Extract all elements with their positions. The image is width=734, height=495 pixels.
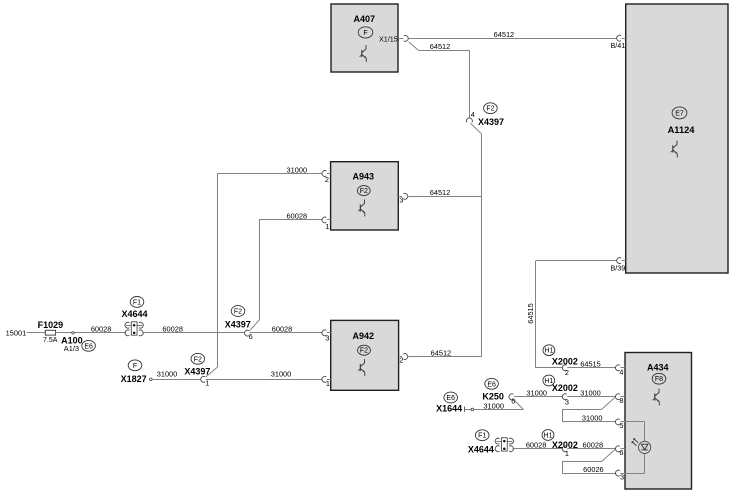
node 15001 label xyxy=(6,328,27,337)
svg-text:X4397: X4397 xyxy=(478,117,504,127)
svg-text:A1124: A1124 xyxy=(668,125,696,135)
A943 pin number 3 xyxy=(399,195,403,204)
svg-text:A942: A942 xyxy=(353,331,375,341)
wire label 60028 after X4397 xyxy=(272,325,293,334)
wire 31000 X4397 to A942 pin1 xyxy=(206,379,322,381)
A1124 pin B/41 stub xyxy=(622,38,626,40)
wire diagonal X1644 to K250 xyxy=(513,399,523,410)
A434 pin 6 socket xyxy=(615,446,619,452)
A942 pin 1 stub xyxy=(327,379,331,381)
A943 pin 3 stub xyxy=(398,196,402,198)
svg-text:E6: E6 xyxy=(487,381,496,388)
A943 pin 2 socket xyxy=(322,171,326,177)
svg-text:E7: E7 xyxy=(675,110,684,117)
A407 label xyxy=(354,14,376,24)
wire 64515 vertical xyxy=(535,261,537,368)
wire 60026 branch to A434 pin3 xyxy=(562,473,615,475)
A1124 code E7 xyxy=(672,107,687,119)
wire label 60028 to A434 pin6 xyxy=(583,441,604,450)
svg-text:31000: 31000 xyxy=(483,401,504,410)
A943 transistor xyxy=(358,200,365,217)
A434 pin number 8 xyxy=(619,396,623,405)
wire 64512 A407 to A1124 xyxy=(408,38,617,40)
svg-text:3: 3 xyxy=(325,333,329,342)
A100 pin A1/3 xyxy=(64,344,79,353)
connector X2002 pin2 label xyxy=(552,357,578,367)
svg-text:X2002: X2002 xyxy=(552,383,578,393)
A407 pin X1/15 socket xyxy=(404,36,408,42)
wire 60026 branch upper horizontal xyxy=(562,461,601,463)
connector X4397 pin6 code F2 xyxy=(231,306,245,317)
wire 64515 to X2002 pin2 xyxy=(536,367,563,369)
svg-text:F: F xyxy=(133,363,137,370)
wire 64512 A943 to vertical xyxy=(408,196,482,198)
svg-text:K250: K250 xyxy=(482,392,504,402)
A942 pin 3 stub xyxy=(327,332,331,334)
wire 60026 branch vertical xyxy=(562,462,564,474)
svg-text:X4397: X4397 xyxy=(225,319,251,329)
control unit A407 box xyxy=(331,4,398,72)
terminal X1644 lead xyxy=(465,409,471,411)
K250 pin number 6 xyxy=(511,397,515,406)
A1124 pin B/39 socket xyxy=(617,258,621,264)
X4397 pin number 4 xyxy=(471,110,475,119)
relay K250 code E6 xyxy=(485,378,499,389)
connector X4397 pin 1 socket xyxy=(201,376,205,382)
X2002 pin number 2 xyxy=(565,368,569,377)
control unit A942 box xyxy=(331,320,399,390)
A434 pin 6 stub xyxy=(620,448,625,450)
terminal X1644 code E6 xyxy=(444,392,458,403)
A434 pin 8 socket xyxy=(615,394,619,400)
connector X4397 pin4 label xyxy=(478,117,504,127)
svg-text:X4644: X4644 xyxy=(122,309,148,319)
svg-text:X1644: X1644 xyxy=(436,404,462,414)
svg-text:X1/15: X1/15 xyxy=(379,35,398,44)
wire label 64512 branch xyxy=(430,42,451,51)
A1124 pin B/41 socket xyxy=(617,35,621,41)
A1124 pin B/39 label xyxy=(611,263,626,272)
svg-text:64512: 64512 xyxy=(430,188,451,197)
svg-text:A1/3: A1/3 xyxy=(64,344,79,353)
svg-text:E6: E6 xyxy=(446,395,455,402)
wire label 31000 pin5 xyxy=(582,414,603,423)
wire 31000 X2002 to A434 pin8 xyxy=(567,396,615,398)
wire 31000 K250 to X2002 pin3 xyxy=(514,396,563,398)
svg-text:60026: 60026 xyxy=(583,465,604,474)
A434 pin 8 stub xyxy=(620,396,625,398)
wire label 60028 left xyxy=(91,325,112,334)
A943 pin 1 stub xyxy=(327,219,331,221)
wire 31000 A943 pin2 horizontal xyxy=(217,173,322,175)
svg-text:4: 4 xyxy=(471,110,475,119)
A1124 pin B/39 stub xyxy=(622,260,626,262)
A1124 pin B/41 label xyxy=(611,41,626,50)
A943 pin number 1 xyxy=(325,222,329,231)
wire label 60028 mid xyxy=(162,325,183,334)
A1124 transistor xyxy=(671,141,678,158)
svg-text:F8: F8 xyxy=(655,376,663,383)
svg-text:1: 1 xyxy=(565,449,569,458)
svg-text:E6: E6 xyxy=(84,343,93,350)
svg-text:64512: 64512 xyxy=(430,42,451,51)
svg-text:F2: F2 xyxy=(486,106,494,113)
wire 60028 fuse to X4644 xyxy=(56,332,126,334)
svg-text:X4397: X4397 xyxy=(184,367,210,377)
A942 code F2 xyxy=(358,345,371,355)
wire 60028 A943 pin1 horizontal xyxy=(259,219,322,221)
connector X4397 pin4 code F2 xyxy=(484,103,498,114)
A407 pin X1/15 label xyxy=(379,35,398,44)
svg-text:F1029: F1029 xyxy=(38,320,64,330)
svg-text:8: 8 xyxy=(619,396,623,405)
A407 code F xyxy=(358,27,373,38)
wire 64512 vertical trunk xyxy=(481,134,483,357)
X2002 pin number 1 xyxy=(565,449,569,458)
connector X4397 pin6 label xyxy=(225,319,251,329)
A434 pin number 4 xyxy=(619,367,623,376)
connector X4644 code F1 xyxy=(130,297,144,308)
A434 pin 5 socket xyxy=(615,419,619,425)
svg-text:15001: 15001 xyxy=(6,328,27,337)
wire label 31000 A943 xyxy=(287,165,308,174)
svg-text:4: 4 xyxy=(619,367,623,376)
fuse F1029 label xyxy=(38,320,64,330)
wire label 31000 K250 xyxy=(526,389,547,398)
A434 pin number 6 xyxy=(619,448,623,457)
wire 64512 branch horizontal xyxy=(419,50,470,52)
svg-text:60028: 60028 xyxy=(526,441,547,450)
wire diagonal below X4397 pin4 xyxy=(470,123,481,134)
fuse F1029 value 7.5A xyxy=(43,337,58,344)
connector X4397 pin 6 socket xyxy=(244,330,248,336)
wire diagonal into X4397 pin1 xyxy=(206,367,217,377)
X4397 pin number 1 xyxy=(205,378,209,387)
relay K250 label xyxy=(482,392,504,402)
svg-text:31000: 31000 xyxy=(271,370,292,379)
svg-text:F1: F1 xyxy=(133,299,141,306)
A942 transistor xyxy=(358,359,365,376)
wire label 60026 pin3 xyxy=(583,465,604,474)
terminal X1644 label xyxy=(436,404,462,414)
terminal X1827 node xyxy=(150,378,153,381)
A943 pin 1 socket xyxy=(322,217,326,223)
wire label 64512 A942 xyxy=(431,348,452,357)
fuse F1029 xyxy=(45,330,55,335)
wire label 31000 X1827 xyxy=(157,370,178,379)
A942 pin number 2 xyxy=(399,356,403,365)
A942 pin 1 socket xyxy=(322,376,326,382)
LED indicator in A434 xyxy=(632,438,651,453)
wire diagonal branch at A407 xyxy=(409,42,419,51)
wire label 31000 to A942 xyxy=(271,370,292,379)
A434 pin 5 stub xyxy=(620,421,625,423)
A434 transistor xyxy=(653,389,660,406)
svg-text:64512: 64512 xyxy=(431,348,452,357)
wire A434 internal pin5 to LED xyxy=(625,421,645,423)
wire 31000 X1644 horizontal xyxy=(474,409,524,411)
A1124 label xyxy=(668,125,696,135)
wire 60028 X4644 to X4397 xyxy=(142,332,244,334)
X2002 pin number 3 xyxy=(565,397,569,406)
connector X2002 pin3 code H1 xyxy=(543,375,555,386)
wire diagonal branch pin6 xyxy=(602,450,615,462)
wire 64515 B/39 horizontal xyxy=(536,260,617,262)
svg-text:1: 1 xyxy=(326,379,330,388)
svg-text:A407: A407 xyxy=(354,14,376,24)
wire label 64515 horizontal xyxy=(580,360,601,369)
svg-text:H1: H1 xyxy=(544,433,553,440)
wire diagonal branch pin8 xyxy=(602,398,615,410)
svg-text:7.5A: 7.5A xyxy=(43,337,58,344)
terminal X1644 node xyxy=(471,408,474,411)
connector X2002 pin3 label xyxy=(552,383,578,393)
wire 60028 X4397 to A942 pin3 xyxy=(249,332,322,334)
connector X4644 plug xyxy=(125,322,143,336)
svg-text:6: 6 xyxy=(249,332,253,341)
A100 label xyxy=(61,335,83,345)
svg-text:X4644: X4644 xyxy=(468,444,494,454)
connector X4644-2 plug xyxy=(495,438,513,452)
wire label 64515 vertical xyxy=(526,303,535,324)
svg-text:F2: F2 xyxy=(360,188,368,195)
svg-text:1: 1 xyxy=(325,222,329,231)
svg-text:F: F xyxy=(363,30,367,37)
wire label 60028 A943 xyxy=(287,212,308,221)
A434 pin 4 socket xyxy=(615,365,619,371)
svg-text:X1827: X1827 xyxy=(121,374,147,384)
svg-text:60028: 60028 xyxy=(272,325,293,334)
A434 pin 4 stub xyxy=(620,367,625,369)
connector X2002 pin 2 socket xyxy=(562,365,566,371)
svg-text:31000: 31000 xyxy=(287,165,308,174)
terminal X1827 code F xyxy=(128,360,142,371)
wire 64512 branch vertical xyxy=(469,50,471,118)
wire 31000 branch vertical xyxy=(562,410,564,422)
A942 pin 2 socket xyxy=(403,354,407,360)
svg-text:3: 3 xyxy=(565,397,569,406)
wire 64515 X2002 to A434 pin4 xyxy=(567,367,615,369)
wire diagonal into X4397 pin6 xyxy=(249,320,259,331)
control unit A1124 box xyxy=(626,4,728,273)
svg-text:H1: H1 xyxy=(544,348,553,355)
svg-text:F2: F2 xyxy=(234,309,242,316)
wire 15001 to fuse xyxy=(27,332,46,334)
X4397 pin number 6 xyxy=(249,332,253,341)
connector X4397 pin 4 socket xyxy=(467,118,473,122)
svg-text:A943: A943 xyxy=(353,171,375,181)
svg-text:60028: 60028 xyxy=(287,212,308,221)
svg-text:64515: 64515 xyxy=(580,360,601,369)
A943 pin number 2 xyxy=(325,175,329,184)
svg-text:31000: 31000 xyxy=(157,370,178,379)
connector X4644-2 label xyxy=(468,444,494,454)
svg-text:F2: F2 xyxy=(360,348,368,355)
wire 31000 vertical to X4397 pin1 xyxy=(217,174,219,368)
svg-text:5: 5 xyxy=(619,421,623,430)
wire label 31000 X1644 xyxy=(483,401,504,410)
connector X4397 pin1 label xyxy=(184,367,210,377)
A942 pin 3 socket xyxy=(322,330,326,336)
svg-text:64515: 64515 xyxy=(526,303,535,324)
connector X4644-2 code F1 xyxy=(475,430,489,441)
A434 pin number 5 xyxy=(619,421,623,430)
A942 pin number 1 xyxy=(326,379,330,388)
A943 pin 2 stub xyxy=(327,173,331,175)
svg-text:31000: 31000 xyxy=(526,389,547,398)
A434 code F8 xyxy=(652,373,666,384)
svg-text:F2: F2 xyxy=(194,356,202,363)
terminal X1827 label xyxy=(121,374,147,384)
connector X4644 label xyxy=(122,309,148,319)
svg-text:31000: 31000 xyxy=(582,414,603,423)
svg-text:60028: 60028 xyxy=(162,325,183,334)
svg-text:3: 3 xyxy=(620,472,624,481)
svg-text:2: 2 xyxy=(399,356,403,365)
svg-text:B/41: B/41 xyxy=(611,41,626,50)
svg-text:3: 3 xyxy=(399,195,403,204)
svg-text:6: 6 xyxy=(619,448,623,457)
wire label 31000 to A434 pin8 xyxy=(580,389,601,398)
A942 pin number 3 xyxy=(325,333,329,342)
svg-text:A434: A434 xyxy=(647,362,669,372)
wire A434 internal LED vertical lower xyxy=(644,453,646,473)
svg-text:2: 2 xyxy=(565,368,569,377)
wire 60028 X4644 to X2002 pin1 xyxy=(512,448,562,450)
svg-text:60028: 60028 xyxy=(91,325,112,334)
svg-text:64512: 64512 xyxy=(494,30,515,39)
A407 transistor xyxy=(360,45,367,62)
A100 code E6 xyxy=(82,340,96,351)
connector X2002 pin 1 socket xyxy=(562,446,566,452)
splice node A100 xyxy=(72,332,74,334)
svg-text:B/39: B/39 xyxy=(611,263,626,272)
A943 code F2 xyxy=(357,186,370,196)
control unit A943 box xyxy=(331,162,399,230)
wire 60028 X2002 to A434 pin6 xyxy=(567,448,615,450)
svg-text:F1: F1 xyxy=(478,433,486,440)
svg-text:2: 2 xyxy=(325,175,329,184)
A434 pin 3 stub xyxy=(620,473,625,475)
connector X2002 pin1 label xyxy=(552,440,578,450)
connector X4397 pin1 code F2 xyxy=(191,353,205,364)
connector X2002 pin 3 socket xyxy=(562,394,566,400)
connector X2002 pin1 code H1 xyxy=(542,430,554,441)
connector X2002 pin2 code H1 xyxy=(543,345,555,356)
terminal X1644 tick xyxy=(464,407,466,412)
wire 31000 X1827 to X4397 xyxy=(152,379,201,381)
relay K250 pin 6 socket xyxy=(509,394,513,400)
wire 60028 vertical to X4397 pin6 xyxy=(259,220,261,320)
wire A434 internal LED vertical upper xyxy=(644,422,646,442)
wire 31000 branch upper horizontal xyxy=(562,409,601,411)
wire label 60028 X4644-2 xyxy=(526,441,547,450)
A943 pin 3 socket xyxy=(403,193,407,199)
wire A434 internal LED to pin3 xyxy=(625,473,645,475)
wire 31000 branch to A434 pin5 xyxy=(562,421,615,423)
A434 pin 3 socket xyxy=(615,470,619,476)
svg-text:6: 6 xyxy=(511,397,515,406)
A942 pin 2 stub xyxy=(399,356,402,358)
control unit A434 box xyxy=(625,353,692,490)
A942 label xyxy=(353,331,375,341)
wire label 64512 main xyxy=(494,30,515,39)
svg-text:60028: 60028 xyxy=(583,441,604,450)
A434 label xyxy=(647,362,669,372)
svg-text:31000: 31000 xyxy=(580,389,601,398)
wire 64512 A942 to vertical xyxy=(408,356,482,358)
A407 pin X1/15 stub xyxy=(398,38,403,40)
A434 pin number 3 xyxy=(620,472,624,481)
wire label 64512 A943 xyxy=(430,188,451,197)
A943 label xyxy=(353,171,375,181)
